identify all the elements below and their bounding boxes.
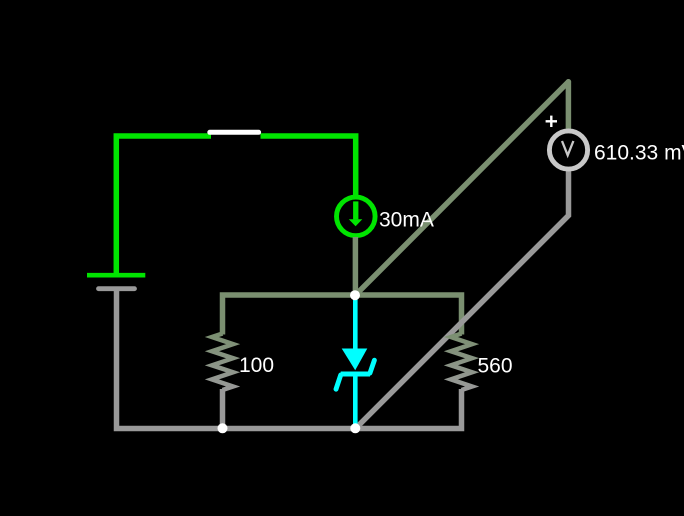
zener diode D1 left flag <box>336 375 341 389</box>
voltmeter M1 circle <box>549 131 587 169</box>
svg-text:560: 560 <box>478 354 513 377</box>
zener diode D1 right flag <box>370 360 374 373</box>
resistor R1 100 zigzag <box>212 334 233 391</box>
zener diode D1 bottom lead <box>353 374 358 429</box>
wire switch to current source (green) <box>261 136 356 195</box>
svg-text:30mA: 30mA <box>379 208 434 231</box>
zener diode D1 cathode bar <box>341 372 370 377</box>
node B junction dot <box>218 423 228 433</box>
wire battery- to ground bus (gray) <box>117 289 462 429</box>
resistor R1 bottom lead <box>220 389 226 429</box>
wire voltmeter- to ground node (gray diagonal) <box>355 171 568 429</box>
svg-text:610.33 mV: 610.33 mV <box>594 141 684 164</box>
wire node A to voltmeter+ (olive diagonal) <box>355 82 568 295</box>
zener diode D1 top lead (cyan) <box>353 295 358 349</box>
battery V1 positive plate <box>87 273 145 278</box>
zener diode D1 triangle <box>342 349 368 371</box>
wire current source to node A (olive) <box>353 237 359 295</box>
node A junction dot <box>350 290 360 300</box>
wire vertex to voltmeter top (olive) <box>566 82 572 130</box>
voltmeter M1 plus mark <box>546 116 557 127</box>
wire battery+ to switch (green) <box>116 136 211 273</box>
node C junction dot <box>350 423 360 433</box>
current source I1 circle <box>337 197 376 236</box>
battery V1 negative plate <box>99 286 135 291</box>
current source I1 arrow <box>349 201 363 226</box>
voltmeter M1 letter V <box>562 141 573 155</box>
svg-text:100: 100 <box>239 354 274 377</box>
resistor R2 560 zigzag <box>451 334 472 391</box>
switch S1 (closed lever) <box>210 130 259 135</box>
wire node A rail to resistors (olive) <box>223 295 462 335</box>
